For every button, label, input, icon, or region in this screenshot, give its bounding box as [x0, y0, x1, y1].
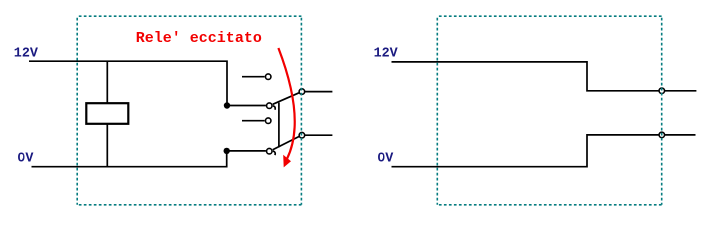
- dashed enclosure box left (relay energized): [77, 16, 301, 205]
- terminal: output pivot circle 2: [299, 132, 305, 138]
- contact: NC stub 1 circle: [265, 74, 271, 80]
- wire: NC stub 2: [242, 120, 265, 122]
- blade 1 hook: [273, 106, 275, 110]
- svg-text:12V: 12V: [374, 46, 399, 61]
- contact: pole 2 circle: [267, 148, 273, 154]
- node: junction dot lower (0V to pole): [224, 148, 230, 154]
- wire: 12V rail left: [29, 61, 227, 105]
- wire: junction to pole 2: [227, 150, 266, 152]
- svg-text:12V: 12V: [14, 46, 39, 61]
- switch blade 1 (pole to output 1): [273, 93, 299, 105]
- wire: 12V path right diagram: [392, 62, 697, 91]
- terminal: right output circle 2: [659, 132, 665, 138]
- wire: NC stub 1: [242, 76, 265, 78]
- wire: coil top lead: [106, 61, 108, 103]
- mechanical link between blades: [278, 103, 280, 148]
- switch blade 2 (pole to output 2): [273, 137, 299, 150]
- contact: NC stub 2 circle: [265, 118, 271, 124]
- red arrowhead: [283, 155, 291, 168]
- terminal: right output circle 1: [659, 88, 665, 94]
- red motion arc arrow: [278, 48, 294, 159]
- svg-text:0V: 0V: [17, 151, 34, 166]
- node: junction dot upper (12V to pole): [224, 102, 230, 108]
- wire: 0V path right diagram: [392, 135, 696, 167]
- wire: junction to pole 1: [227, 105, 266, 107]
- svg-text:Rele' eccitato: Rele' eccitato: [136, 30, 262, 47]
- relay coil K1: [86, 103, 128, 124]
- terminal: output pivot circle 1: [299, 89, 305, 95]
- wire: 0V rail left: [32, 150, 227, 166]
- wire: coil bottom lead: [106, 124, 108, 167]
- wire: output 1 left diagram: [305, 91, 332, 93]
- dashed enclosure box right (relay hidden): [437, 16, 661, 205]
- wire: output 2 left diagram: [305, 134, 332, 136]
- blade 2 hook: [273, 151, 275, 155]
- contact: pole 1 circle: [267, 103, 273, 109]
- svg-text:0V: 0V: [377, 151, 394, 166]
